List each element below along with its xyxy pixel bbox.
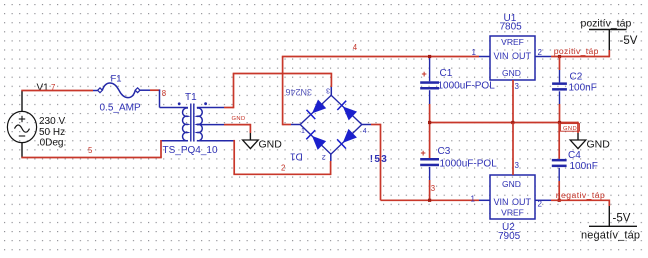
svg-text:C4: C4: [568, 150, 581, 161]
svg-text:2: 2: [538, 48, 543, 57]
capacitor C1 top lead: [429, 57, 431, 82]
svg-text:VIN: VIN: [494, 51, 509, 61]
wire T1 primary bottom down: [160, 140, 162, 158]
wire down to T1 primary: [159, 90, 161, 108]
svg-text:GND: GND: [502, 68, 521, 78]
bridge left pin lead: [291, 124, 300, 126]
svg-text:GND: GND: [232, 116, 246, 122]
junction minus rail C4: [558, 199, 561, 202]
junction ground rail C2 C4: [558, 121, 561, 124]
transformer T1 secondary top stub wire: [197, 107, 224, 109]
wire bridge bottom pin up: [330, 161, 332, 175]
wire bridge left to plus rail: [282, 57, 284, 126]
svg-text:T1: T1: [185, 92, 197, 103]
wire F1 to T1 corner: [150, 89, 160, 91]
svg-text:8: 8: [162, 89, 166, 98]
svg-text:1: 1: [301, 128, 305, 135]
ground tap wire: [577, 122, 579, 133]
svg-text:0.5_AMP: 0.5_AMP: [100, 103, 141, 114]
svg-text:7905: 7905: [498, 231, 521, 242]
svg-text:C1: C1: [440, 68, 453, 79]
bridge right pin lead: [362, 124, 371, 126]
transformer T1 center tap stub wire: [197, 124, 224, 126]
svg-text:+: +: [421, 148, 426, 158]
transformer T1 secondary winding: [197, 108, 202, 141]
wire U1 output: [551, 56, 609, 58]
svg-text:3N246: 3N246: [285, 87, 312, 97]
wire bottom return to V1: [21, 157, 162, 159]
svg-text:!53: !53: [370, 154, 388, 165]
svg-text:negatív_táp: negatív_táp: [581, 230, 640, 242]
junction ground rail U1 U2: [511, 121, 514, 124]
U1 pin 2 lead: [535, 56, 551, 58]
svg-text:VREF: VREF: [501, 208, 524, 218]
svg-text:C2: C2: [570, 72, 583, 83]
svg-text:negativ_táp: negativ_táp: [556, 190, 605, 200]
svg-text:7805: 7805: [500, 22, 523, 33]
svg-text:OUT: OUT: [512, 51, 532, 61]
svg-text:VREF: VREF: [501, 37, 524, 47]
capacitor C3: [420, 158, 439, 161]
wire secondary bottom down: [233, 140, 235, 174]
U2 pin 3 wire to ground rail: [512, 123, 514, 176]
wire bridge right to minus rail: [371, 124, 381, 126]
svg-text:GND: GND: [502, 179, 521, 189]
U2 pin 1 lead: [479, 199, 490, 201]
ground rail wire: [430, 122, 578, 124]
capacitor C3 bottom lead: [429, 167, 431, 180]
capacitor C4 top lead: [558, 123, 560, 159]
wire down to bridge pin 3: [330, 73, 332, 87]
svg-text:3: 3: [326, 87, 330, 94]
svg-text:3: 3: [515, 161, 520, 170]
wire up at x233: [233, 74, 235, 109]
svg-text:GND: GND: [587, 138, 611, 150]
op-amp U1 7805 box: [490, 36, 535, 80]
svg-text:100nF: 100nF: [570, 161, 598, 172]
junction C2 top: [558, 55, 561, 58]
capacitor C1 bottom lead: [429, 90, 431, 104]
bridge pin 3 lead: [330, 87, 332, 96]
transformer T1 secondary bottom stub wire: [197, 140, 234, 142]
transformer T1 primary phasing dot: [178, 102, 181, 105]
svg-text:1: 1: [471, 194, 476, 203]
svg-text:GND: GND: [259, 139, 283, 151]
wire U2 output: [551, 199, 609, 201]
ground symbol left: [249, 133, 251, 140]
svg-text:3: 3: [431, 184, 435, 193]
transformer T1 core: [190, 104, 192, 142]
svg-text:4: 4: [353, 43, 358, 52]
wire center tap to ground: [224, 124, 250, 126]
capacitor C3 top lead: [429, 123, 431, 159]
svg-text:230 V: 230 V: [39, 116, 65, 127]
svg-text:-5V: -5V: [620, 35, 638, 47]
minus rail wire to U2: [381, 199, 480, 201]
U1 pin 1 lead: [479, 56, 490, 58]
svg-text:pozitív_táp: pozitív_táp: [581, 18, 632, 30]
transformer T1 primary top stub wire: [160, 107, 188, 109]
svg-text:V1: V1: [37, 83, 50, 94]
svg-text:50 Hz: 50 Hz: [39, 127, 65, 138]
svg-text:3: 3: [515, 82, 520, 91]
junction plus rail C1: [428, 55, 431, 58]
transformer T1 secondary phasing dot: [204, 102, 207, 105]
voltage source V1: [7, 111, 36, 142]
wire F1 left lead: [93, 90, 98, 92]
fuse F1: [102, 83, 135, 98]
svg-text:pozitiv_táp: pozitiv_táp: [554, 46, 599, 56]
svg-text:D1: D1: [290, 150, 303, 161]
junction minus rail C3: [428, 199, 431, 202]
capacitor C2: [552, 82, 567, 85]
U2 pin 2 lead: [535, 199, 551, 201]
bridge pin 2 lead: [330, 154, 332, 161]
plus rail wire to U1: [282, 56, 479, 58]
voltage source V1 top lead wire: [21, 91, 23, 113]
voltage source V1 bottom lead wire: [21, 142, 23, 158]
svg-text:4: 4: [363, 128, 367, 135]
svg-text:100nF: 100nF: [569, 83, 597, 94]
bridge rectifier D1 body: [300, 95, 362, 154]
capacitor C4 bottom lead: [558, 168, 560, 181]
svg-text:C3: C3: [438, 146, 451, 157]
svg-text:2: 2: [322, 153, 326, 160]
diode D1b top-right (anode right, cathode top): [343, 107, 356, 120]
svg-text:1000uF-POL: 1000uF-POL: [440, 159, 498, 170]
capacitor C4: [552, 159, 567, 162]
capacitor C1: [420, 81, 439, 84]
svg-text:OUT: OUT: [512, 197, 532, 207]
svg-text:+: +: [422, 69, 427, 79]
wire F1 right lead: [140, 89, 150, 91]
svg-text:1000uF-POL: 1000uF-POL: [438, 81, 496, 92]
svg-text:-5V: -5V: [613, 213, 631, 225]
svg-text:2: 2: [281, 164, 285, 173]
svg-text:GND: GND: [563, 126, 577, 132]
svg-text:F1: F1: [111, 73, 122, 84]
svg-text:VIN: VIN: [494, 197, 509, 207]
op-amp U2 7905 box: [490, 175, 535, 219]
diode D1d bottom-right (anode right, cathode bottom): [343, 129, 356, 142]
diode D1a top-left (anode top, cathode left): [313, 100, 326, 113]
transformer T1 primary winding: [183, 108, 188, 141]
diode D1c bottom-left (anode bottom, cathode left): [313, 136, 326, 149]
svg-text:1: 1: [472, 48, 477, 57]
wire across to bridge bottom: [233, 173, 330, 175]
wire across to bridge top: [233, 73, 332, 75]
wire V1 to F1: [21, 90, 93, 92]
negative flag wire: [608, 200, 610, 207]
positive flag wire: [608, 50, 610, 57]
ground symbol right: [577, 133, 579, 140]
svg-text:5: 5: [88, 146, 93, 155]
transformer T1 primary bottom stub wire: [161, 140, 188, 142]
svg-text:.0Deg.: .0Deg.: [37, 137, 66, 148]
U1 pin 3 wire to ground rail: [512, 80, 514, 123]
net label GND boxed: [561, 124, 580, 132]
capacitor C2 top lead: [559, 57, 561, 71]
capacitor C2 bottom lead: [559, 91, 561, 104]
junction ground rail C1 C3: [428, 121, 431, 124]
wire secondary top: [224, 107, 234, 109]
svg-text:TS_PQ4_10: TS_PQ4_10: [163, 145, 218, 156]
